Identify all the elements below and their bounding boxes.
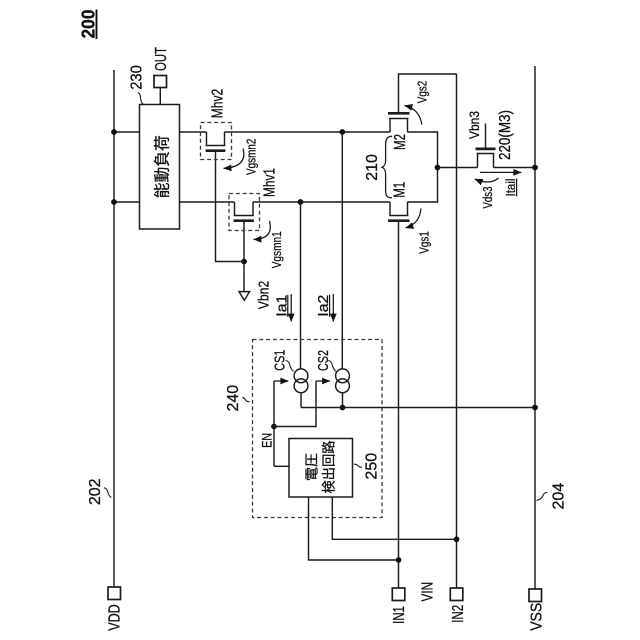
label Vgsmn2 with arrow [224,149,244,169]
svg-text:Vgs2: Vgs2 [414,81,429,104]
transistor M1 [389,202,391,216]
svg-text:OUT: OUT [153,47,170,71]
svg-text:Mhv1: Mhv1 [261,168,278,197]
svg-text:IN1: IN1 [391,606,408,624]
node EN branch [271,424,277,430]
wire top loop M2 gate [399,74,457,113]
node common source [435,165,441,171]
node VDD-upper [111,129,117,135]
wire OUT stub [159,88,161,105]
svg-text:M1: M1 [392,182,409,198]
node VSS tail [532,165,538,171]
node VSS lower [532,405,538,411]
svg-text:204: 204 [551,483,568,510]
svg-text:VSS: VSS [529,603,546,631]
node IN2 join [454,536,460,542]
wire Ia2 vertical [341,132,343,369]
wire detect out2 to IN2 [332,497,456,539]
wire lower rail y=202 [114,201,235,203]
terminal VSS [529,589,542,602]
wire CS bottoms to VSS [300,393,302,408]
transistor Mhv1 [234,202,236,216]
arrow EN to CS2 [316,380,330,382]
active load box 230 [140,105,180,230]
label Vds3 with arrow [475,178,499,182]
wire common source vertical [437,131,439,202]
svg-text:能動負荷: 能動負荷 [154,135,172,198]
node Ia1 tap [298,199,304,205]
terminal IN2 [450,588,463,601]
svg-text:Vgs1: Vgs1 [417,231,432,254]
svg-text:250: 250 [363,453,380,480]
svg-text:220(M3): 220(M3) [497,110,514,160]
current source CS1 [294,369,308,383]
node Ia2 tap [339,129,345,135]
svg-text:VDD: VDD [106,604,123,631]
svg-text:Mhv2: Mhv2 [209,89,226,119]
svg-text:240: 240 [225,385,242,412]
node VDD-lower [111,199,117,205]
svg-text:210: 210 [364,154,381,181]
label Vgsmn1 with arrow [254,221,271,240]
wire IN2 / M2 gate vertical [456,74,458,588]
transistor M3 220 [477,154,479,168]
svg-text:202: 202 [87,478,104,505]
svg-text:VIN: VIN [419,582,436,602]
transistor M2 [389,119,391,133]
wire EN to CS2 [274,381,316,427]
terminal OUT [154,76,167,88]
svg-text:230: 230 [129,65,146,90]
terminal Vbn2 triangle [239,292,250,301]
svg-text:電圧: 電圧 [304,453,319,481]
svg-text:200: 200 [78,10,98,39]
node gate join [241,259,247,265]
current source CS2 [336,369,350,383]
svg-text:検出回路: 検出回路 [321,440,336,493]
wire detect out1 to IN1 [309,497,399,560]
node IN1 join [396,557,402,563]
brace 210 [382,136,392,198]
node CS2 bottom [340,405,346,411]
label Itail with arrow [480,171,521,173]
voltage detection box 250 [289,439,353,498]
wire upper rail y=132 [114,131,207,133]
svg-text:Vbn3: Vbn3 [466,111,482,139]
label Vgs2 with arrow [405,106,422,125]
svg-text:Vds3: Vds3 [480,187,495,209]
wire VDD rail vertical [113,70,115,587]
label Vgs1 with arrow [406,209,421,228]
svg-text:Vgsmn2: Vgsmn2 [244,139,259,175]
wire tail y=167.5 [438,167,478,169]
transistor Mhv2 [206,132,208,146]
terminal VDD [108,587,121,600]
wire Ia1 vertical [300,202,302,369]
svg-text:EN: EN [258,433,274,448]
wire VSS rail vertical [534,66,536,589]
svg-text:Vbn2: Vbn2 [255,281,272,310]
wire EN [273,381,275,466]
terminal IN1 [392,588,405,601]
arrow EN to CS1 [274,380,288,382]
wire IN1 / M1 gate vertical [398,221,400,588]
svg-text:IN2: IN2 [450,605,467,623]
dashed box 240 [253,340,383,518]
svg-text:M2: M2 [392,134,409,150]
svg-text:Vgsmn1: Vgsmn1 [269,231,284,268]
